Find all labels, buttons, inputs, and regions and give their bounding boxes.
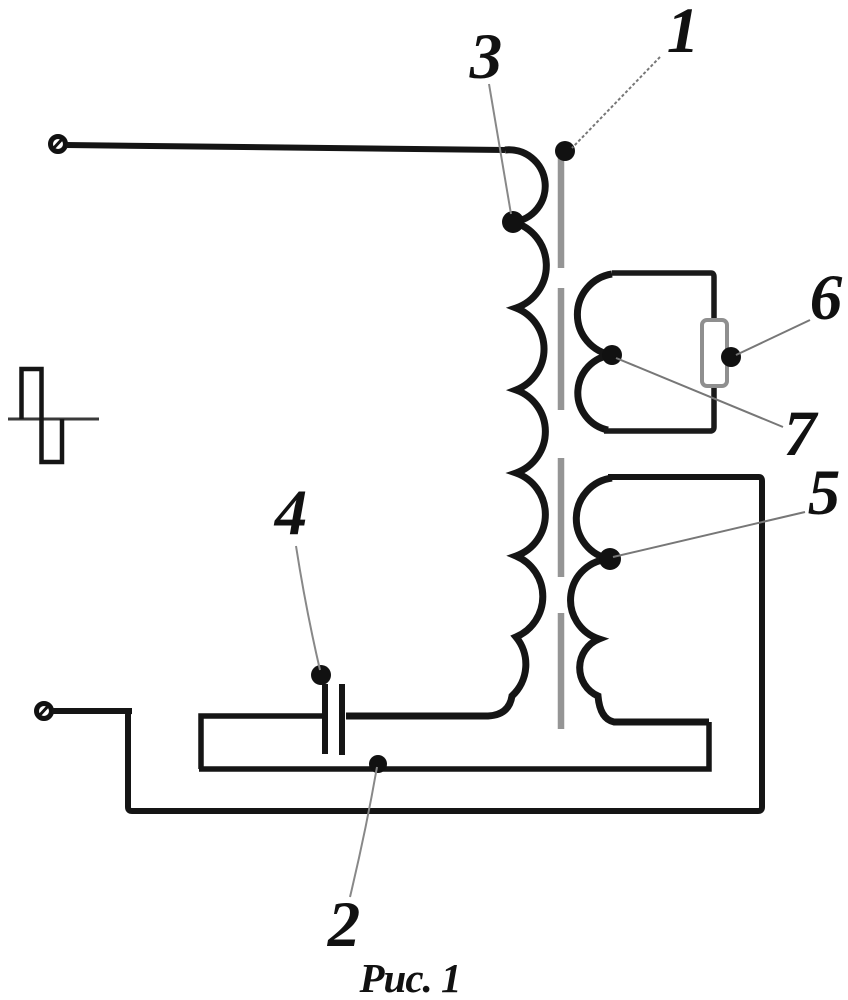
- capacitor 4 plate right: [339, 684, 345, 755]
- transformer core 1 (segment 2): [558, 288, 565, 410]
- wire: winding 5 top and outer loop to bottom terminal: [52, 477, 762, 811]
- wire: top terminal to primary winding: [66, 145, 505, 150]
- wire: inner loop top-left (capacitor to left edge): [201, 716, 322, 769]
- leader line for label 3: [489, 84, 511, 214]
- node dot on resistor 6: [721, 347, 741, 367]
- leader line for label 5: [613, 512, 805, 557]
- node dot on winding 7: [602, 345, 622, 365]
- secondary winding 5 (arcs): [571, 478, 709, 722]
- leader line for label 6: [736, 320, 810, 355]
- svg-text:2: 2: [327, 889, 361, 961]
- input terminal (top): [51, 137, 66, 152]
- node dot 1 (core top): [555, 141, 575, 161]
- svg-text:Рис. 1: Рис. 1: [358, 955, 460, 1000]
- pulse source square wave: [22, 369, 63, 462]
- node dot on winding 3: [502, 211, 524, 233]
- svg-text:3: 3: [469, 21, 503, 93]
- leader line for label 2: [350, 767, 377, 897]
- capacitor 4 plate left: [322, 684, 328, 754]
- svg-text:6: 6: [810, 262, 843, 334]
- node dot on winding 5: [599, 548, 621, 570]
- leader line for label 4: [296, 546, 320, 670]
- input terminal (bottom): [37, 704, 52, 719]
- leader line for label 1: [572, 57, 660, 148]
- pulse source waveform axis: [8, 418, 99, 421]
- leader line for label 7: [616, 358, 783, 427]
- svg-text:1: 1: [667, 0, 700, 67]
- svg-text:4: 4: [273, 477, 308, 549]
- wire: winding 7 top to resistor: [612, 273, 714, 320]
- node dot on capacitor 4: [311, 665, 331, 685]
- transformer core 1 (segment 3): [558, 458, 565, 577]
- resistor 6: [702, 320, 727, 386]
- node dot on bottom wire 2: [369, 755, 387, 773]
- secondary winding 7 (arcs): [577, 274, 612, 430]
- primary winding 3: [346, 150, 546, 716]
- svg-text:5: 5: [808, 457, 841, 529]
- transformer core 1 (segment 4): [558, 613, 565, 729]
- transformer core 1 (segment 1): [558, 155, 565, 268]
- wire: resistor to winding 7 bottom: [604, 387, 714, 431]
- wire: inner loop bottom: [199, 722, 709, 769]
